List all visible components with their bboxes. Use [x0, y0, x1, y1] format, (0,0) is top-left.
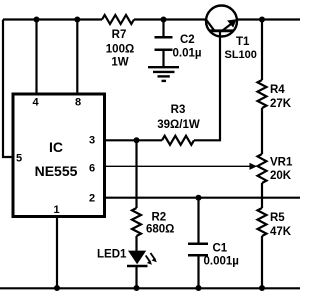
ground	[148, 67, 179, 81]
wire pin 3	[105, 139, 162, 141]
svg-text:5: 5	[16, 153, 22, 165]
svg-text:47K: 47K	[270, 226, 292, 238]
svg-text:39Ω/1W: 39Ω/1W	[157, 119, 200, 131]
transistor T1	[206, 6, 257, 62]
wire right rail upper	[261, 20, 263, 81]
wire pin 8 drop	[76, 20, 78, 94]
wire pin 2	[105, 197, 300, 199]
svg-text:R5: R5	[270, 212, 285, 224]
wire right rail R4 to VR1	[261, 108, 263, 154]
capacitor C2	[155, 20, 202, 67]
svg-text:100Ω: 100Ω	[106, 44, 134, 56]
node junction R2 branch	[134, 137, 140, 143]
svg-text:6: 6	[89, 163, 95, 175]
svg-text:4: 4	[32, 97, 39, 109]
svg-text:0.001µ: 0.001µ	[204, 256, 239, 268]
wire top rail right	[237, 18, 300, 20]
svg-text:C2: C2	[180, 34, 195, 46]
svg-text:T1: T1	[236, 36, 250, 48]
resistor R7	[102, 15, 134, 69]
capacitor C1	[188, 198, 239, 288]
svg-text:C1: C1	[213, 243, 228, 255]
potentiometer VR1	[250, 154, 293, 183]
svg-text:IC: IC	[49, 139, 63, 155]
wire pin 4 drop	[35, 20, 37, 94]
wire R2 to LED	[135, 236, 137, 251]
svg-text:LED1: LED1	[97, 249, 127, 261]
svg-text:R2: R2	[152, 212, 167, 224]
svg-text:3: 3	[89, 135, 95, 147]
svg-text:R3: R3	[171, 104, 186, 116]
node junction rail bottom	[259, 285, 265, 291]
wire top rail left	[3, 18, 102, 20]
LED LED1	[97, 249, 157, 267]
node junction pin1 bottom	[54, 285, 60, 291]
wire R3 to transistor base	[194, 31, 220, 141]
resistor R2	[132, 208, 174, 236]
svg-text:VR1: VR1	[270, 157, 293, 169]
svg-text:2: 2	[89, 193, 95, 205]
svg-text:R7: R7	[112, 29, 127, 41]
wire pin 1 drop	[56, 217, 58, 289]
svg-text:0.01µ: 0.01µ	[173, 48, 202, 60]
wire left rail to pin 5	[3, 20, 12, 158]
node junction C2	[161, 17, 167, 23]
svg-text:1W: 1W	[111, 57, 128, 69]
wire bottom rail	[0, 287, 300, 289]
resistor R5	[258, 208, 292, 238]
wire top rail middle	[134, 18, 206, 20]
svg-text:SL100: SL100	[225, 49, 257, 61]
svg-text:8: 8	[75, 97, 81, 109]
wire LED to bottom	[135, 266, 137, 288]
svg-text:1: 1	[53, 204, 59, 216]
node junction pin8	[74, 17, 80, 23]
node junction LED bottom	[134, 285, 140, 291]
node junction C1	[196, 195, 202, 201]
wire right rail VR1 to R5	[261, 183, 263, 208]
svg-text:R4: R4	[270, 84, 285, 96]
svg-text:20K: 20K	[270, 170, 292, 182]
resistor R4	[258, 80, 292, 110]
svg-text:27K: 27K	[270, 98, 292, 110]
wire right rail lower	[261, 236, 263, 288]
resistor R3	[157, 104, 200, 145]
node junction pin4	[34, 17, 40, 23]
wire pin 6 to wiper	[105, 165, 250, 167]
node junction C1 bottom	[196, 285, 202, 291]
svg-text:NE555: NE555	[35, 163, 78, 179]
svg-text:680Ω: 680Ω	[146, 224, 174, 236]
node junction emitter rail	[259, 17, 265, 23]
wire R2 branch upper	[135, 140, 137, 208]
IC U1 NE555	[13, 94, 105, 217]
